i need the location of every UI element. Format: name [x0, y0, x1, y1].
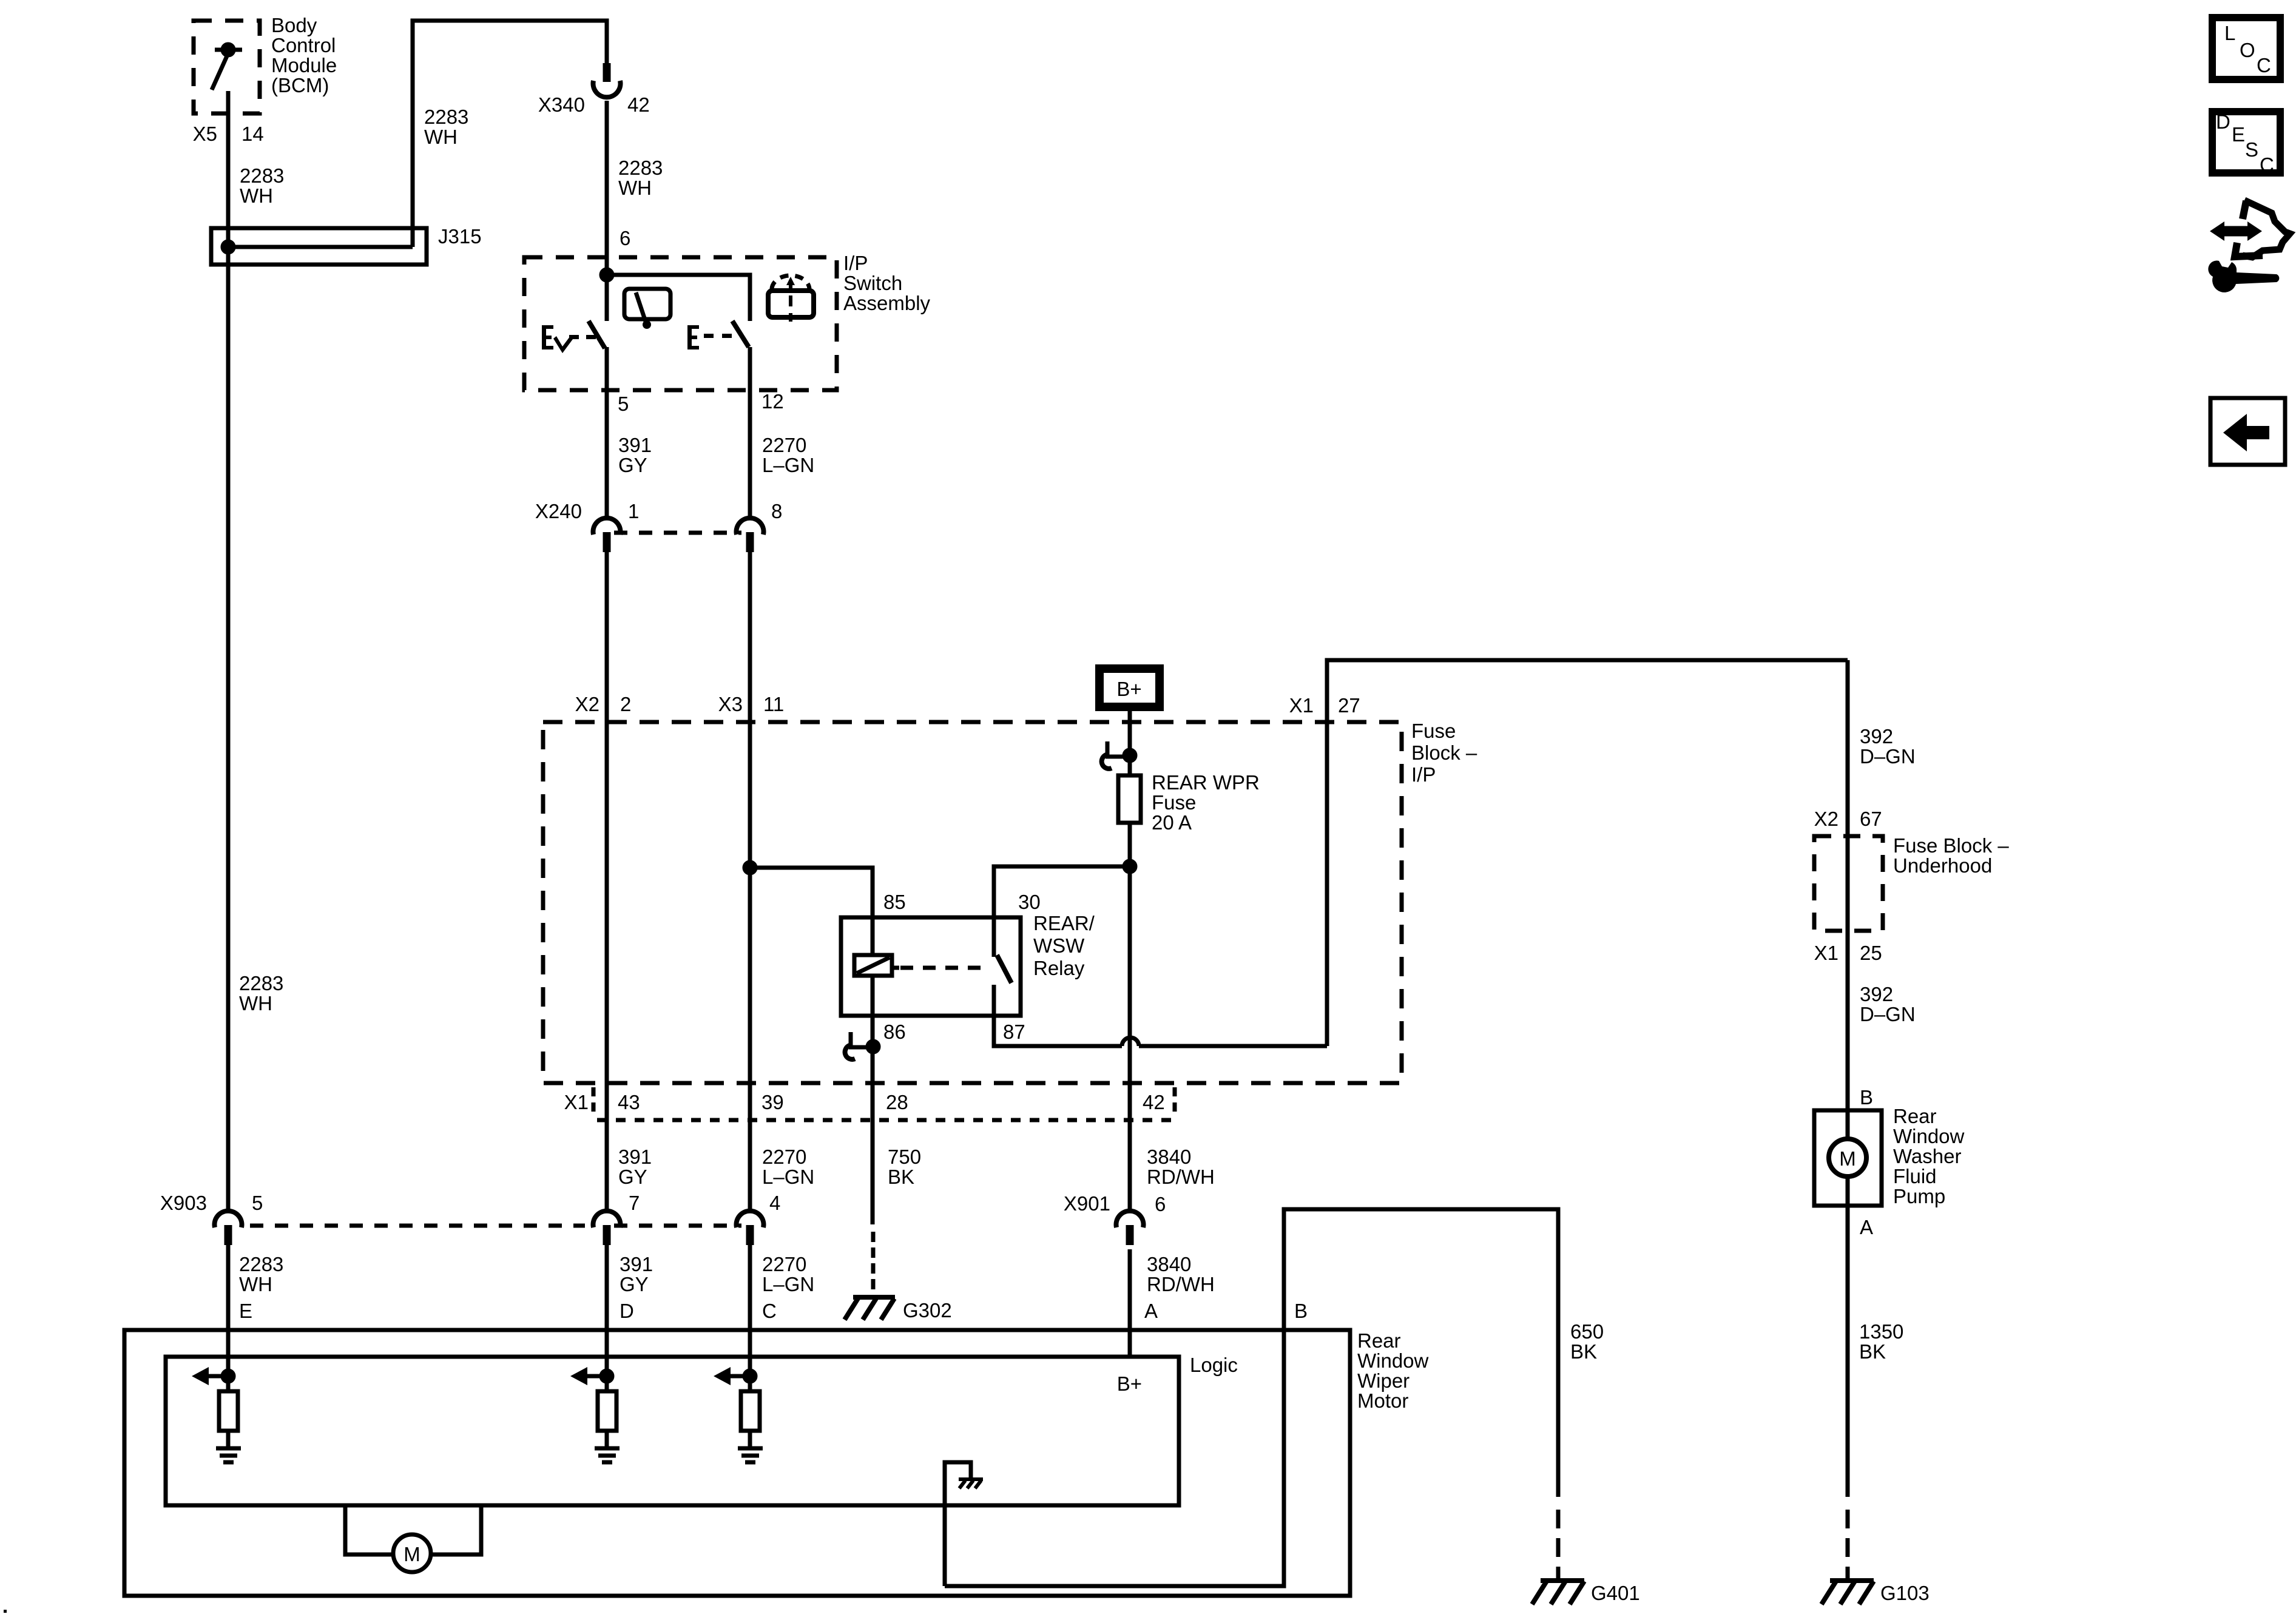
svg-text:WSW: WSW: [1033, 934, 1085, 957]
branch C arrow: [731, 1374, 750, 1379]
connector X901 pin 6: [1116, 1211, 1144, 1245]
module I/P Switch Assembly dashed box: [524, 257, 837, 390]
wire A to motor: [1128, 1249, 1132, 1357]
BCM internal switch: [212, 44, 242, 90]
washer switch icon: [768, 275, 814, 322]
connector X340 pin 42: [593, 63, 621, 97]
wire 750 BK dashed to G302: [871, 1232, 876, 1297]
svg-text:A: A: [1144, 1300, 1158, 1322]
svg-text:WH: WH: [240, 184, 273, 207]
module Fuse Block I/P dashed box: [543, 722, 1402, 1083]
svg-text:391: 391: [620, 1253, 653, 1275]
branch C resistor: [748, 1376, 752, 1391]
wire relay 87 output with hop: [994, 1016, 1327, 1046]
svg-text:14: 14: [241, 123, 264, 145]
icon DESC box: [2212, 112, 2280, 173]
stray dot bottom left: [4, 1610, 7, 1613]
svg-text:X2: X2: [575, 693, 599, 715]
svg-text:8: 8: [771, 500, 782, 522]
module Rear Window Wiper Motor outer box: [124, 1330, 1350, 1596]
svg-text:X5: X5: [193, 123, 217, 145]
relay REAR/WSW box: [841, 917, 1021, 1016]
svg-text:86: 86: [883, 1021, 906, 1043]
ground G103: [1822, 1581, 1874, 1604]
svg-text:87: 87: [1003, 1021, 1025, 1043]
symbol E actuator: [687, 325, 732, 349]
svg-text:X1: X1: [564, 1091, 589, 1113]
svg-text:A: A: [1860, 1216, 1873, 1238]
wire relay 85 feed from 2270 L-GN: [750, 868, 873, 917]
ground G401: [1532, 1581, 1584, 1604]
wiper switch icon: [624, 289, 670, 329]
wire X1-27 riser and feed to right: [1327, 660, 1848, 1046]
wire C to motor: [748, 1245, 752, 1376]
wire fuse to X901 (3840 RD/WH): [1128, 823, 1132, 1212]
wire branch to washer switch: [607, 275, 750, 321]
node relay 30 feed junction: [1124, 861, 1135, 872]
branch D: node dot: [601, 1371, 612, 1382]
svg-text:392: 392: [1860, 983, 1893, 1005]
node 85 feed junction: [745, 862, 755, 873]
svg-text:28: 28: [886, 1091, 908, 1113]
svg-text:B+: B+: [1117, 1372, 1142, 1395]
svg-text:391: 391: [618, 434, 652, 456]
svg-text:D: D: [620, 1300, 634, 1322]
wire relay 86 to ground: [871, 1016, 875, 1224]
svg-text:42: 42: [627, 93, 650, 116]
wire 1350 BK dashed: [1846, 1510, 1850, 1581]
svg-text:C: C: [2260, 154, 2274, 176]
svg-text:3840: 3840: [1147, 1253, 1191, 1275]
svg-text:4: 4: [769, 1192, 780, 1214]
internal ground of logic: [945, 1462, 971, 1586]
svg-text:RD/WH: RD/WH: [1147, 1273, 1215, 1295]
connector X903 row dashes: [250, 1224, 585, 1228]
icon arrow wrench: [2208, 200, 2290, 292]
svg-text:S: S: [2245, 138, 2258, 161]
svg-text:J315: J315: [438, 225, 482, 248]
svg-text:20 A: 20 A: [1152, 811, 1192, 834]
svg-text:X1: X1: [1289, 694, 1314, 717]
node switch feed junction: [601, 269, 612, 280]
connector pin 7: [593, 1211, 620, 1245]
svg-text:O: O: [2240, 39, 2255, 61]
svg-text:WH: WH: [424, 126, 458, 148]
svg-text:L–GN: L–GN: [762, 454, 814, 476]
svg-text:11: 11: [763, 693, 784, 715]
svg-text:C: C: [762, 1300, 777, 1322]
svg-text:650: 650: [1570, 1320, 1604, 1343]
svg-text:30: 30: [1018, 891, 1041, 913]
wire wiper switch pin 5: [605, 347, 609, 519]
svg-text:6: 6: [620, 227, 630, 249]
svg-text:27: 27: [1338, 694, 1360, 717]
svg-text:Rear: Rear: [1357, 1329, 1401, 1352]
svg-text:43: 43: [618, 1091, 640, 1113]
svg-text:E: E: [239, 1300, 252, 1322]
svg-text:Washer: Washer: [1893, 1145, 1961, 1167]
svg-text:X901: X901: [1064, 1192, 1110, 1215]
svg-text:391: 391: [618, 1146, 652, 1168]
svg-text:X240: X240: [535, 500, 582, 522]
svg-text:6: 6: [1155, 1193, 1166, 1215]
svg-text:85: 85: [883, 891, 906, 913]
branch D ground bars: [595, 1448, 620, 1462]
module Body Control Module (BCM) dashed box: [194, 21, 260, 113]
svg-text:C: C: [2257, 54, 2271, 76]
svg-text:Window: Window: [1357, 1349, 1429, 1372]
module Fuse Block Underhood dashed box: [1814, 836, 1883, 931]
svg-text:GY: GY: [618, 1166, 647, 1188]
wiper switch upper contact: [605, 275, 609, 321]
connector X240 pin 1: [593, 518, 621, 552]
svg-text:E: E: [2232, 123, 2245, 146]
svg-text:L: L: [2224, 22, 2235, 44]
wire 1350 BK: [1846, 1206, 1850, 1497]
svg-text:750: 750: [888, 1146, 921, 1168]
svg-text:M: M: [1839, 1147, 1856, 1170]
svg-text:5: 5: [252, 1192, 263, 1214]
wire 650 BK dashed: [1556, 1510, 1561, 1581]
svg-text:(BCM): (BCM): [271, 74, 329, 96]
svg-text:G302: G302: [903, 1299, 952, 1322]
branch E ground bars: [216, 1448, 241, 1462]
connector X1 strip dashes: [593, 1087, 1175, 1120]
washer switch blade: [732, 321, 749, 347]
svg-text:Fuse: Fuse: [1411, 720, 1456, 742]
connector row dashes 7 to 4: [614, 1224, 741, 1228]
svg-text:Logic: Logic: [1190, 1354, 1238, 1376]
svg-text:GY: GY: [620, 1273, 649, 1295]
wire 2283 WH from X340 to switch junction: [605, 101, 609, 275]
svg-text:392: 392: [1860, 725, 1893, 748]
svg-text:42: 42: [1143, 1091, 1165, 1113]
fuse REAR WPR 20A body: [1118, 775, 1141, 823]
svg-text:BK: BK: [1859, 1340, 1886, 1363]
svg-text:2270: 2270: [762, 1253, 806, 1275]
svg-text:L–GN: L–GN: [762, 1273, 814, 1295]
svg-text:I/P: I/P: [843, 252, 868, 274]
svg-text:RD/WH: RD/WH: [1147, 1166, 1215, 1188]
svg-text:67: 67: [1860, 808, 1882, 830]
svg-text:Control: Control: [271, 34, 336, 56]
relay switch: [994, 917, 1011, 1016]
svg-text:1: 1: [628, 500, 639, 522]
svg-text:BK: BK: [1570, 1340, 1597, 1363]
svg-text:L–GN: L–GN: [762, 1166, 814, 1188]
svg-text:I/P: I/P: [1411, 763, 1436, 786]
svg-text:39: 39: [761, 1091, 784, 1113]
relay coil feed stubs: [871, 917, 875, 955]
svg-text:Assembly: Assembly: [843, 292, 931, 314]
svg-text:WH: WH: [239, 992, 272, 1014]
svg-text:M: M: [403, 1543, 420, 1565]
node fuse top junction: [1124, 750, 1135, 761]
svg-text:2283: 2283: [239, 1253, 283, 1275]
connector X240 dashed body line: [614, 531, 741, 535]
wire 2283 WH from BCM pin 14 down to X903: [226, 91, 231, 1212]
svg-text:X3: X3: [718, 693, 743, 715]
branch E resistor: [226, 1376, 231, 1391]
svg-text:B: B: [1294, 1300, 1308, 1322]
wire stubs inside pump: [1846, 1110, 1850, 1139]
svg-text:Fluid: Fluid: [1893, 1165, 1937, 1187]
node J315 junction dot: [223, 241, 234, 252]
connector X240 pin 8: [737, 518, 764, 552]
svg-text:1350: 1350: [1859, 1320, 1903, 1343]
branch E: node dot: [223, 1371, 234, 1382]
svg-text:Motor: Motor: [1357, 1389, 1408, 1412]
svg-text:2283: 2283: [424, 106, 468, 128]
svg-text:X903: X903: [160, 1192, 207, 1214]
svg-text:Switch: Switch: [843, 272, 902, 294]
svg-text:Fuse: Fuse: [1152, 791, 1196, 814]
svg-text:12: 12: [761, 390, 784, 413]
branch C ground bars: [738, 1448, 763, 1462]
svg-text:B: B: [1860, 1086, 1873, 1109]
wire B path to G401: [945, 1209, 1558, 1586]
icon back arrow box: [2210, 398, 2285, 465]
logic box: [166, 1357, 1179, 1505]
svg-text:5: 5: [618, 393, 629, 415]
branch E arrow: [209, 1374, 228, 1379]
branch D arrow: [587, 1374, 607, 1379]
ground G302: [845, 1297, 895, 1320]
wire 391 GY from X240-1 to X903 row: [605, 552, 609, 1212]
svg-text:Module: Module: [271, 54, 337, 76]
svg-text:2270: 2270: [762, 434, 806, 456]
svg-text:WH: WH: [239, 1273, 272, 1295]
J315 bus line: [228, 245, 413, 249]
svg-text:2270: 2270: [762, 1146, 806, 1168]
wire top loop from J315 up and over to X340: [413, 21, 607, 247]
symbol Ev actuator: [542, 325, 596, 353]
svg-text:2283: 2283: [239, 972, 283, 994]
svg-text:GY: GY: [618, 454, 647, 476]
wiper switch blade: [589, 321, 605, 348]
svg-text:2: 2: [620, 693, 631, 715]
svg-text:Relay: Relay: [1033, 957, 1085, 979]
svg-text:Window: Window: [1893, 1125, 1965, 1147]
pump motor circle: [1829, 1139, 1866, 1176]
wire relay 30 feed: [994, 866, 1130, 917]
svg-text:3840: 3840: [1147, 1146, 1191, 1168]
svg-text:Body: Body: [271, 14, 317, 36]
svg-text:Block –: Block –: [1411, 741, 1477, 764]
branch C: node dot: [745, 1371, 755, 1382]
fuse clip symbol: [1102, 741, 1126, 769]
svg-text:G103: G103: [1880, 1582, 1930, 1604]
wire 2270 L-GN from X240-8 down: [748, 552, 752, 1212]
connector X903 pin 5: [214, 1211, 241, 1245]
svg-text:D–GN: D–GN: [1860, 745, 1916, 768]
svg-text:7: 7: [629, 1192, 640, 1214]
wire B+ feed down to fuse: [1128, 711, 1132, 775]
wire washer switch pin 12: [748, 347, 752, 519]
svg-text:Pump: Pump: [1893, 1185, 1945, 1207]
motor M tab: [345, 1505, 481, 1572]
wire 392 D-GN feed down right side: [1846, 660, 1850, 1110]
svg-text:2283: 2283: [618, 157, 663, 179]
svg-text:BK: BK: [888, 1166, 914, 1188]
svg-text:REAR/: REAR/: [1033, 912, 1095, 934]
svg-text:WH: WH: [618, 177, 652, 199]
svg-text:X2: X2: [1814, 808, 1838, 830]
wire E to motor: [226, 1245, 231, 1376]
svg-text:2283: 2283: [240, 164, 284, 187]
svg-text:D: D: [2216, 110, 2230, 133]
ground clip symbol at 86: [845, 1032, 869, 1059]
node 86 ground junction: [868, 1041, 879, 1052]
svg-text:Rear: Rear: [1893, 1105, 1937, 1127]
svg-text:Underhood: Underhood: [1893, 854, 1992, 877]
svg-text:Fuse Block –: Fuse Block –: [1893, 834, 2009, 857]
branch D resistor: [605, 1376, 609, 1391]
svg-text:B+: B+: [1116, 678, 1141, 700]
icon LOC box: [2212, 18, 2280, 79]
svg-text:25: 25: [1860, 942, 1882, 964]
wire D to motor: [605, 1245, 609, 1376]
module Rear Window Washer Fluid Pump box: [1814, 1110, 1882, 1206]
svg-text:REAR WPR: REAR WPR: [1152, 771, 1260, 794]
svg-text:D–GN: D–GN: [1860, 1003, 1916, 1025]
relay coil: [854, 955, 899, 976]
connector pin 4: [737, 1211, 764, 1245]
svg-text:Wiper: Wiper: [1357, 1369, 1410, 1392]
svg-text:X340: X340: [538, 93, 585, 116]
svg-text:G401: G401: [1591, 1582, 1640, 1604]
relay actuator dashed link: [900, 966, 990, 970]
splice J315 box: [211, 228, 427, 265]
svg-text:X1: X1: [1814, 942, 1838, 964]
terminal B+ box: [1099, 669, 1160, 707]
